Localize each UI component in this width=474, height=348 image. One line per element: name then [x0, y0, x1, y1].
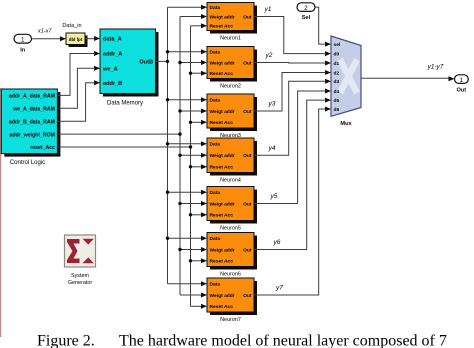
- svg-text:Sel: Sel: [302, 15, 311, 21]
- svg-text:Out: Out: [243, 14, 252, 20]
- wire weight branch to Neuron6: [180, 249, 202, 251]
- svg-text:The hardware model of neural l: The hardware model of neural layer compo…: [119, 332, 447, 348]
- wire Sel to mux sel: [315, 7, 326, 44]
- svg-text:addr_weight_ROM: addr_weight_ROM: [9, 132, 55, 138]
- block Neuron2: [207, 47, 257, 90]
- svg-text:Data: Data: [210, 236, 221, 242]
- block Control Logic: [4, 92, 60, 157]
- wire y6 Neuron6 Out to Mux d5: [254, 100, 326, 249]
- svg-text:d6: d6: [334, 107, 340, 113]
- svg-text:Weigt addr: Weigt addr: [210, 153, 235, 159]
- svg-text:addr_A: addr_A: [103, 52, 122, 58]
- wire y2 Neuron2 Out to Mux d1: [254, 62, 326, 65]
- svg-text:Neuron1: Neuron1: [220, 36, 241, 42]
- wire weight branch to Neuron2: [180, 62, 202, 64]
- block Data Memory: [103, 32, 159, 97]
- svg-text:addr_B: addr_B: [103, 81, 122, 87]
- wire addr_weight_ROM bus: [57, 17, 180, 296]
- wire reset branch to Neuron6: [191, 260, 203, 262]
- block Neuron6: [207, 233, 257, 278]
- svg-text:In: In: [20, 48, 26, 54]
- wire y1 Neuron1 Out to Mux d0: [254, 17, 326, 54]
- svg-text:y4: y4: [268, 145, 276, 152]
- svg-text:Mux: Mux: [340, 121, 352, 127]
- svg-text:addr_A_data_RAM: addr_A_data_RAM: [9, 94, 55, 100]
- wire y5 Neuron5 Out to Mux d4: [254, 91, 326, 204]
- svg-text:1: 1: [21, 36, 25, 43]
- svg-text:Data_in: Data_in: [62, 23, 81, 29]
- wire we_A_data_RAM to we_A: [57, 68, 95, 108]
- wire reset branch to Neuron7: [191, 305, 203, 307]
- wire reset branch to Neuron4: [191, 166, 203, 168]
- svg-text:d4: d4: [334, 89, 340, 95]
- wire data branch to Neuron7: [168, 283, 203, 285]
- svg-text:Weigt addr: Weigt addr: [210, 109, 235, 115]
- wire reset branch to Neuron2: [191, 72, 203, 74]
- wire y4 Neuron4 Out to Mux d3: [254, 81, 326, 155]
- svg-text:we_A_data_RAM: we_A_data_RAM: [12, 107, 55, 113]
- wire weight branch to Neuron4: [180, 154, 202, 156]
- svg-text:y7: y7: [275, 285, 283, 292]
- wire data branch to Neuron3: [168, 99, 203, 101]
- svg-text:Data: Data: [210, 142, 221, 148]
- block Neuron4: [207, 138, 257, 184]
- wire weight branch to Neuron1: [180, 16, 202, 18]
- svg-text:Neuron2: Neuron2: [220, 84, 241, 90]
- wire reset branch to Neuron3: [191, 121, 203, 123]
- svg-text:y1: y1: [264, 6, 272, 13]
- svg-text:d5: d5: [334, 98, 340, 104]
- svg-text:Reset Acc: Reset Acc: [210, 24, 234, 30]
- block Mux: [331, 36, 361, 116]
- svg-text:Reset Acc: Reset Acc: [210, 213, 234, 219]
- svg-text:2: 2: [304, 5, 308, 12]
- svg-text:Reset Acc: Reset Acc: [210, 165, 234, 171]
- svg-text:y6: y6: [273, 239, 281, 246]
- svg-text:Weigt addr: Weigt addr: [210, 247, 235, 253]
- wire data branch to Neuron5: [168, 191, 203, 193]
- svg-text:y3: y3: [268, 101, 276, 108]
- svg-text:Weigt addr: Weigt addr: [210, 201, 235, 207]
- svg-text:Out: Out: [456, 87, 466, 93]
- wire In to Data_in gateway: [32, 38, 62, 40]
- svg-text:d0: d0: [334, 51, 340, 57]
- svg-text:Out: Out: [243, 247, 252, 253]
- block Neuron3: [207, 94, 257, 139]
- svg-text:Reset Acc: Reset Acc: [210, 120, 234, 126]
- svg-text:Out: Out: [243, 60, 252, 66]
- block Neuron5: [207, 187, 257, 232]
- svg-text:sel: sel: [334, 42, 341, 48]
- wire Mux to Out: [361, 77, 449, 79]
- svg-text:Neuron7: Neuron7: [220, 317, 241, 323]
- svg-text:Reset Acc: Reset Acc: [210, 304, 234, 310]
- svg-text:Control Logic: Control Logic: [10, 160, 45, 166]
- svg-text:1: 1: [460, 77, 464, 84]
- svg-text:OutB: OutB: [139, 60, 153, 66]
- wire addr_B_data_RAM to addr_B: [57, 83, 95, 121]
- wire data branch to Neuron2: [168, 51, 203, 53]
- svg-text:reset_Acc: reset_Acc: [30, 145, 55, 151]
- Xilinx watermark: [340, 60, 357, 94]
- wire data branch to Neuron4: [168, 143, 203, 145]
- wire y7 Neuron7 Out to Mux d6: [254, 109, 326, 295]
- svg-text:Out: Out: [243, 293, 252, 299]
- svg-text:y5: y5: [270, 193, 278, 200]
- input port In (1): [14, 34, 32, 43]
- svg-text:y2: y2: [265, 52, 273, 59]
- svg-text:Weigt addr: Weigt addr: [210, 60, 235, 66]
- svg-text:Reset Acc: Reset Acc: [210, 71, 234, 77]
- svg-text:d1: d1: [334, 61, 340, 67]
- svg-text:Out: Out: [243, 109, 252, 115]
- svg-text:addr_B_data_RAM: addr_B_data_RAM: [9, 119, 55, 125]
- svg-text:Weigt addr: Weigt addr: [210, 14, 235, 20]
- svg-text:dbl fpt: dbl fpt: [69, 37, 83, 42]
- svg-text:Reset Acc: Reset Acc: [210, 259, 234, 265]
- wire weight branch to Neuron5: [180, 203, 202, 205]
- svg-text:Data: Data: [210, 5, 221, 11]
- svg-text:y1-y7: y1-y7: [427, 64, 444, 71]
- block Neuron7: [207, 278, 257, 323]
- svg-text:Figure 2.: Figure 2.: [37, 332, 95, 348]
- svg-text:Neuron6: Neuron6: [220, 272, 241, 278]
- page-edge artifact line: [0, 88, 2, 337]
- svg-text:Neuron4: Neuron4: [220, 178, 241, 184]
- wire OutB data bus: [156, 7, 168, 284]
- svg-text:data_A: data_A: [103, 37, 122, 43]
- block Neuron1: [207, 3, 257, 42]
- svg-text:Neuron5: Neuron5: [220, 226, 241, 232]
- wire reset_Acc bus: [57, 26, 190, 307]
- wire addr_A_data_RAM to addr_A: [57, 54, 95, 96]
- svg-text:Weigt addr: Weigt addr: [210, 293, 235, 299]
- wire weight branch to Neuron3: [180, 110, 202, 112]
- svg-text:Data: Data: [210, 190, 221, 196]
- gateway Data_in: [69, 36, 88, 48]
- wire y3 Neuron3 Out to Mux d2: [254, 73, 326, 112]
- svg-text:Data: Data: [210, 50, 221, 56]
- block System Generator: [65, 235, 96, 267]
- svg-text:Data: Data: [210, 98, 221, 104]
- svg-text:Out: Out: [243, 153, 252, 159]
- svg-text:Data: Data: [210, 282, 221, 288]
- svg-text:x1-x7: x1-x7: [37, 29, 53, 35]
- wire reset branch to Neuron5: [191, 214, 203, 216]
- input port Sel (2): [297, 3, 315, 12]
- wire data branch to Neuron6: [168, 237, 203, 239]
- svg-text:d3: d3: [334, 79, 340, 85]
- wire data branch to Neuron1: [168, 6, 203, 8]
- svg-text:Out: Out: [243, 201, 252, 207]
- svg-text:System: System: [71, 273, 89, 279]
- wire reset branch to Neuron1: [191, 25, 203, 27]
- svg-text:Data Memory: Data Memory: [107, 101, 143, 107]
- svg-text:d2: d2: [334, 70, 340, 76]
- output port Out (1): [455, 75, 469, 84]
- wire gateway to Data Memory data_A: [85, 38, 95, 40]
- svg-text:Generator: Generator: [68, 280, 92, 286]
- svg-text:we_A: we_A: [102, 66, 118, 72]
- wire weight branch to Neuron7: [180, 294, 202, 296]
